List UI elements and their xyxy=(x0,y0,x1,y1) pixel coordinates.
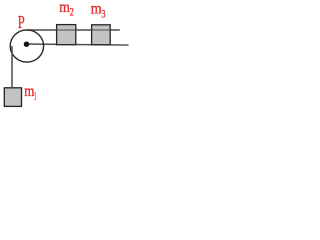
block m3 xyxy=(92,25,111,45)
block m1 xyxy=(4,88,21,107)
string (vertical, to m1) xyxy=(11,46,13,88)
soften string where it crosses block m3 xyxy=(93,29,110,32)
pulley axle dot xyxy=(24,41,30,47)
block m2 xyxy=(57,25,76,45)
svg-text:1: 1 xyxy=(34,91,37,103)
svg-text:P: P xyxy=(18,12,25,32)
svg-text:2: 2 xyxy=(70,7,74,19)
pulley P wheel xyxy=(10,30,43,62)
string (horizontal, pulley top across m2 and m3 to right edge) xyxy=(27,29,120,31)
soften string where it crosses block m2 xyxy=(58,29,75,32)
svg-text:m: m xyxy=(59,0,70,16)
svg-text:m: m xyxy=(91,0,102,17)
svg-text:3: 3 xyxy=(101,9,105,21)
table surface line xyxy=(25,44,128,45)
